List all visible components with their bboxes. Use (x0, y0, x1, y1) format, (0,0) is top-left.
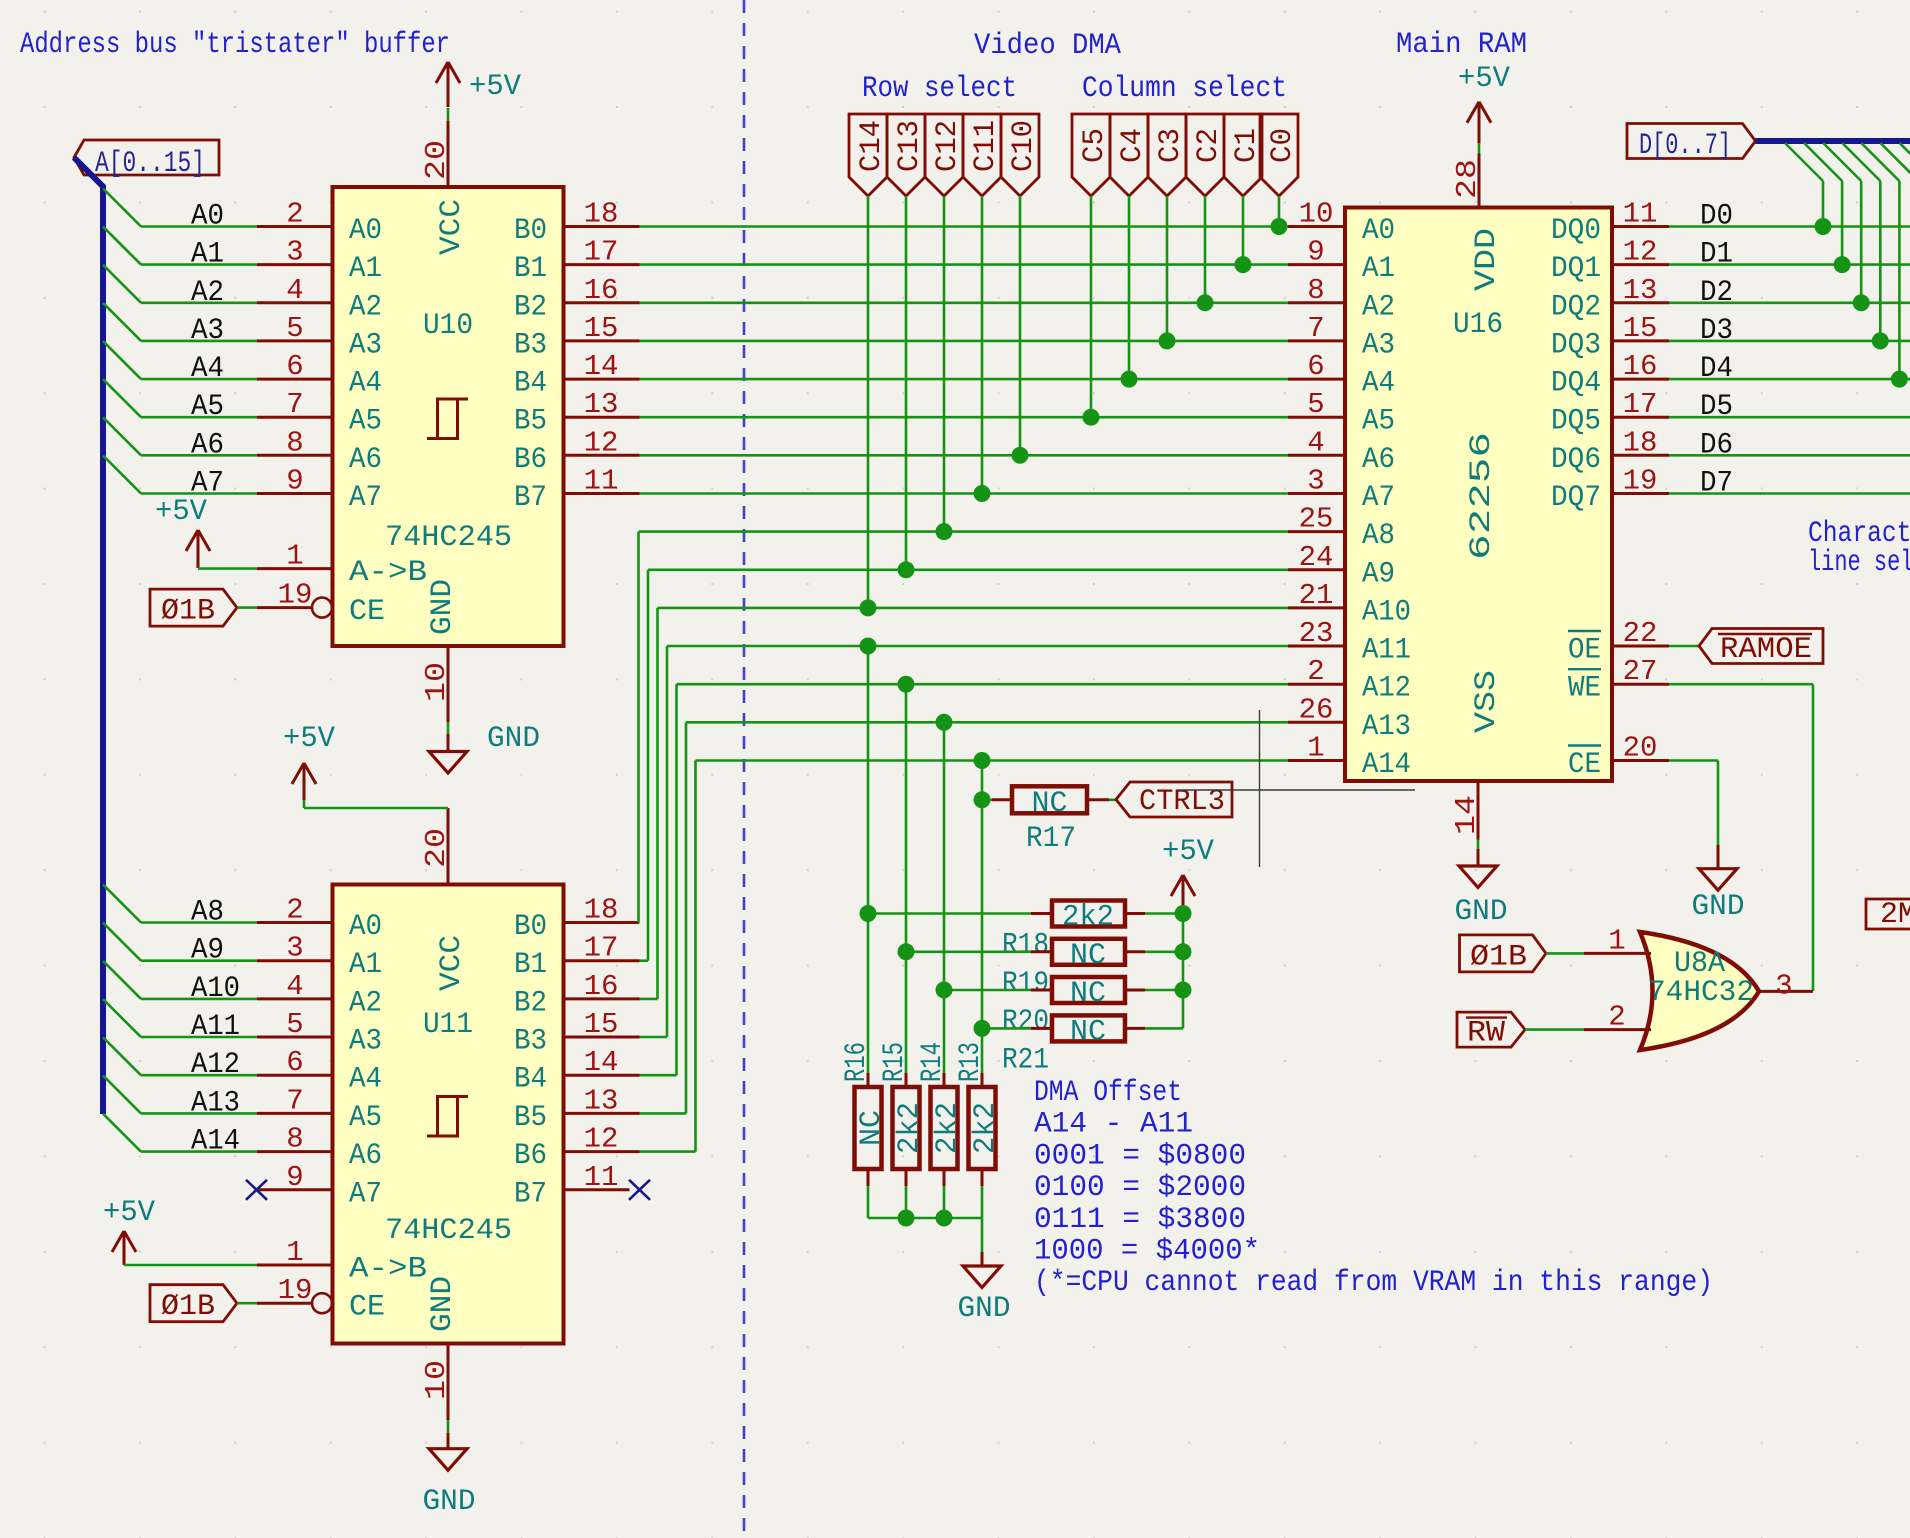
wire D7 (1669, 492, 1910, 495)
wire Ø1B to U10 CE (237, 606, 257, 609)
svg-text:1: 1 (286, 1236, 303, 1269)
svg-text:A9: A9 (1362, 557, 1395, 591)
U16 pin 21 A10 (1288, 606, 1345, 609)
U10 pin 4 A2 (257, 301, 333, 304)
U16 pin 16 DQ4 (1612, 378, 1669, 381)
svg-text:4: 4 (286, 274, 303, 307)
svg-text:9: 9 (286, 465, 303, 498)
wire C1 vertical (1242, 196, 1245, 265)
svg-text:A3: A3 (1362, 328, 1395, 362)
svg-text:NC: NC (1032, 787, 1068, 821)
svg-text:R20: R20 (1002, 1005, 1049, 1039)
junction +5V rail R19 (1175, 943, 1192, 960)
wire D3 (1669, 340, 1910, 343)
svg-text:12: 12 (584, 1123, 619, 1156)
svg-text:20: 20 (1623, 732, 1658, 765)
wire C2 vertical (1204, 196, 1207, 303)
power +5V at U10 pin 1 (197, 530, 200, 568)
U16 pin 15 DQ3 (1612, 339, 1669, 342)
svg-text:A2: A2 (1362, 290, 1395, 324)
cursor crosshair (1259, 710, 1261, 867)
U10 pin 7 A5 (257, 416, 333, 419)
svg-text:+5V: +5V (283, 722, 335, 756)
net flag C13 (887, 114, 925, 196)
svg-text:C4: C4 (1116, 128, 1150, 163)
U16 pin 3 A7 (1288, 492, 1345, 495)
junction at R19 left (898, 943, 915, 960)
U11 pin 1 A->B (257, 1264, 333, 1267)
svg-text:18: 18 (584, 198, 619, 231)
svg-text:A1: A1 (349, 948, 382, 982)
U16 pin 10 A0 (1288, 225, 1345, 228)
svg-text:Video DMA: Video DMA (974, 29, 1121, 63)
bus A[0..15] vertical (74, 158, 103, 1115)
svg-text:DQ0: DQ0 (1551, 214, 1601, 248)
junction tie R14 (936, 1210, 953, 1227)
power +5V at U10 VCC (447, 108, 450, 121)
bus D[0..7] horizontal (1756, 138, 1910, 144)
U16 pin 4 A6 (1288, 454, 1345, 457)
svg-text:74HC245: 74HC245 (385, 1214, 512, 1248)
bus label D[0..7] (1627, 124, 1756, 159)
label 2M box (clipped) (1866, 899, 1910, 929)
U11 pin 3 A9 (257, 959, 333, 962)
svg-text:NC: NC (1070, 977, 1106, 1011)
svg-text:74HC245: 74HC245 (385, 521, 512, 555)
junction C12/A8 (936, 523, 953, 540)
svg-text:A4: A4 (349, 1063, 382, 1097)
svg-text:10: 10 (420, 662, 453, 702)
svg-text:B5: B5 (514, 1101, 547, 1135)
wire A13 to U11 (141, 1112, 257, 1115)
svg-text:15: 15 (1623, 312, 1658, 345)
resistor R18 2k2 (868, 912, 1031, 915)
wire A4 to U10 (141, 378, 257, 381)
svg-text:GND: GND (1455, 895, 1508, 929)
svg-text:22: 22 (1623, 617, 1658, 650)
U11 pin 6 A12 (257, 1074, 333, 1077)
U11 pin 12 B6 (564, 1150, 640, 1153)
svg-text:20: 20 (420, 828, 453, 868)
svg-text:A2: A2 (349, 986, 382, 1020)
svg-text:+5V: +5V (103, 1196, 155, 1230)
U16 pin 24 A9 (1288, 568, 1345, 571)
junction C4/A4 (1121, 371, 1138, 388)
svg-text:B0: B0 (514, 214, 547, 248)
svg-text:B2: B2 (514, 290, 547, 324)
wire D1 (1669, 263, 1910, 266)
junction C3/A3 (1159, 332, 1176, 349)
svg-text:2M: 2M (1880, 898, 1910, 932)
svg-text:A3: A3 (349, 328, 382, 362)
svg-text:8: 8 (1307, 274, 1324, 307)
svg-text:R14: R14 (916, 1042, 950, 1082)
U10 schmitt mark (427, 399, 468, 439)
svg-text:A4: A4 (1362, 367, 1395, 401)
svg-text:2: 2 (1608, 1001, 1625, 1034)
svg-text:1: 1 (286, 540, 303, 573)
svg-text:3: 3 (1775, 969, 1792, 1002)
junction A11 row (860, 638, 877, 655)
svg-text:VCC: VCC (435, 935, 469, 991)
wire A2 to U10 (141, 301, 257, 304)
svg-text:A5: A5 (191, 390, 224, 424)
U10 pin 11 B7 (564, 492, 640, 495)
U16 pin 9 A1 (1288, 263, 1345, 266)
svg-text:2: 2 (286, 198, 303, 231)
U10 pin 12 B6 (564, 454, 640, 457)
IC U16 62256 body (1345, 208, 1612, 782)
wire D5 (1669, 416, 1910, 419)
U16 pin 11 DQ0 (1612, 225, 1669, 228)
net flag C12 (925, 114, 963, 196)
net flag C10 (1001, 114, 1039, 196)
svg-text:A3: A3 (191, 314, 224, 348)
net flag C2 (1186, 114, 1224, 196)
resistor R16 NC (867, 1073, 870, 1085)
U16 pin 20 CE (1612, 759, 1669, 762)
svg-text:A10: A10 (1362, 595, 1411, 629)
svg-text:8: 8 (286, 426, 303, 459)
svg-text:16: 16 (584, 274, 619, 307)
svg-text:23: 23 (1299, 617, 1334, 650)
svg-text:DQ4: DQ4 (1551, 367, 1601, 401)
svg-text:A11: A11 (1362, 634, 1411, 668)
svg-text:A8: A8 (191, 896, 224, 930)
svg-text:19: 19 (1623, 465, 1658, 498)
svg-text:WE: WE (1568, 672, 1601, 706)
svg-text:11: 11 (1623, 198, 1658, 231)
svg-text:0100 = $2000: 0100 = $2000 (1034, 1171, 1246, 1205)
wire +5V rail right of R18-R21 (1182, 914, 1185, 1029)
svg-text:A5: A5 (1362, 405, 1395, 439)
svg-text:Main RAM: Main RAM (1396, 28, 1527, 62)
U10 pin GND 10 (447, 646, 450, 722)
junction at R20 left (936, 982, 953, 999)
svg-text:+5V: +5V (469, 70, 521, 104)
wires U11 B0-B6 up to RAM A8-A14 rows (639, 532, 1289, 1152)
U10 pin 1 A->B (257, 567, 333, 570)
svg-text:B7: B7 (514, 481, 547, 515)
svg-text:B4: B4 (514, 1063, 547, 1097)
svg-text:VDD: VDD (1470, 228, 1504, 291)
svg-text:D3: D3 (1700, 314, 1733, 348)
junction A12 row (898, 676, 915, 693)
svg-text:13: 13 (584, 388, 619, 421)
U16 pin 7 A3 (1288, 339, 1345, 342)
svg-text:A6: A6 (191, 428, 224, 462)
svg-text:D2: D2 (1700, 276, 1733, 310)
svg-text:B6: B6 (514, 1139, 547, 1173)
svg-text:VSS: VSS (1470, 670, 1504, 733)
junction C5/A5 (1083, 409, 1100, 426)
svg-text:CE: CE (349, 595, 385, 629)
resistor R15 2k2 (905, 1073, 908, 1085)
wire A3 to U10 (141, 340, 257, 343)
U10 pin 19 CE with bubble (257, 606, 312, 609)
svg-text:C10: C10 (1007, 120, 1041, 172)
svg-text:2: 2 (286, 894, 303, 927)
svg-text:B1: B1 (514, 252, 547, 286)
U16 pin 1 A14 (1288, 759, 1345, 762)
junction tie R15 (898, 1210, 915, 1227)
svg-text:7: 7 (286, 388, 303, 421)
svg-text:DQ5: DQ5 (1551, 405, 1601, 439)
junction C14/A10 (860, 599, 877, 616)
resistor R21 NC (982, 1027, 1031, 1030)
svg-text:A11: A11 (191, 1010, 240, 1044)
U11 pin 8 A14 (257, 1150, 333, 1153)
svg-text:GND: GND (1692, 890, 1745, 924)
wire A1 to U10 (141, 263, 257, 266)
svg-text:12: 12 (584, 426, 619, 459)
svg-text:A13: A13 (1362, 710, 1411, 744)
svg-text:3: 3 (286, 236, 303, 269)
svg-text:7: 7 (286, 1084, 303, 1117)
U10 pin 9 A7 (257, 492, 333, 495)
junction C2/A2 (1197, 294, 1214, 311)
power +5V at U11 pin 1 (123, 1231, 126, 1265)
svg-text:B4: B4 (514, 367, 547, 401)
wire A8 to U11 (141, 921, 257, 924)
svg-text:A1: A1 (191, 238, 224, 272)
svg-text:2k2: 2k2 (969, 1102, 1003, 1154)
svg-text:CE: CE (349, 1291, 385, 1325)
U11 schmitt mark (427, 1097, 468, 1137)
junction +5V rail R18 (1175, 905, 1192, 922)
svg-text:C5: C5 (1078, 128, 1112, 163)
U10 pin VCC 20 (447, 121, 450, 187)
svg-text:A2: A2 (349, 290, 382, 324)
U16 pin 5 A5 (1288, 416, 1345, 419)
wire C5 vertical (1090, 196, 1093, 417)
svg-text:U11: U11 (423, 1008, 473, 1042)
svg-text:RW: RW (1467, 1017, 1505, 1051)
svg-text:28: 28 (1451, 159, 1484, 199)
wire D0 (1669, 225, 1910, 228)
wire: bus taps D0-D7 (1785, 143, 1910, 379)
svg-text:A14 - A11: A14 - A11 (1034, 1108, 1193, 1142)
U10 pin 2 A0 (257, 225, 333, 228)
svg-text:U10: U10 (423, 309, 473, 343)
wire A12 to U11 (141, 1074, 257, 1077)
U16 pin 18 DQ6 (1612, 454, 1669, 457)
svg-text:A6: A6 (1362, 443, 1395, 477)
svg-text:D5: D5 (1700, 390, 1733, 424)
ground at U10 pin 10 (447, 722, 450, 734)
U10 pin 3 A1 (257, 263, 333, 266)
svg-text:A14: A14 (191, 1125, 240, 1159)
svg-text:D7: D7 (1700, 467, 1733, 501)
svg-text:U16: U16 (1453, 308, 1503, 342)
svg-text:Column select: Column select (1082, 72, 1287, 106)
ground at U16 VSS (1477, 840, 1480, 850)
wire A9 to U11 (141, 959, 257, 962)
svg-text:DQ1: DQ1 (1551, 252, 1601, 286)
U16 pin 26 A13 (1288, 721, 1345, 724)
svg-text:19: 19 (278, 579, 313, 612)
U11 pin GND 10 (447, 1344, 450, 1421)
svg-text:B1: B1 (514, 948, 547, 982)
junction at R21 left (974, 1020, 991, 1037)
U16 pin 2 A12 (1288, 683, 1345, 686)
svg-text:+5V: +5V (155, 495, 207, 529)
wire C13 vertical (905, 196, 908, 570)
U10 pin 16 B2 (564, 301, 640, 304)
wire A10 to U11 (141, 998, 257, 1001)
svg-text:2k2: 2k2 (1062, 901, 1114, 935)
svg-text:B5: B5 (514, 405, 547, 439)
wire A11 to U11 (141, 1036, 257, 1039)
wire C10 vertical (1019, 196, 1022, 455)
svg-text:GND: GND (426, 579, 460, 635)
U16 pin VSS 14 (1477, 781, 1480, 840)
resistor R13 2k2 (981, 1073, 984, 1085)
svg-text:26: 26 (1299, 693, 1334, 726)
svg-text:A0: A0 (349, 214, 382, 248)
U16 pin 8 A2 (1288, 301, 1345, 304)
svg-text:13: 13 (584, 1084, 619, 1117)
OR gate U8A 74HC32 (1640, 932, 1759, 1050)
net flag C0 (1260, 114, 1298, 196)
wire C4 vertical (1128, 196, 1131, 379)
junction C1/A1 (1235, 256, 1252, 273)
U10 pin 15 B3 (564, 339, 640, 342)
wires A0-A7 rows from U10 B outputs to U16 (640, 227, 1289, 494)
svg-text:2k2: 2k2 (893, 1102, 927, 1154)
svg-text:1: 1 (1307, 732, 1324, 765)
U11 pin 14 B4 (564, 1074, 640, 1077)
U16 pin 25 A8 (1288, 530, 1345, 533)
svg-text:11: 11 (584, 1161, 619, 1194)
svg-text:D1: D1 (1700, 238, 1733, 272)
ground at U11 pin 10 (447, 1420, 450, 1433)
U16 pin 12 DQ1 (1612, 263, 1669, 266)
no-connect X at U11 pin 11 (629, 1180, 650, 1200)
svg-text:8: 8 (286, 1123, 303, 1156)
wire D2 (1669, 301, 1910, 304)
svg-text:Ø1B: Ø1B (1470, 940, 1527, 974)
svg-text:CE: CE (1568, 748, 1601, 782)
svg-text:VCC: VCC (435, 199, 469, 255)
svg-text:A5: A5 (349, 1101, 382, 1135)
bus label A[0..15] (74, 140, 219, 175)
U10 pin 17 B1 (564, 263, 640, 266)
junction D4 (1891, 371, 1908, 388)
U16 pin 27 WE (1612, 683, 1669, 686)
svg-text:9: 9 (286, 1161, 303, 1194)
junction C10/A6 (1012, 447, 1029, 464)
svg-text:7: 7 (1307, 312, 1324, 345)
wire C11 vertical (981, 196, 984, 494)
svg-text:D4: D4 (1700, 352, 1733, 386)
svg-text:25: 25 (1299, 503, 1334, 536)
wire A6 to U10 (141, 454, 257, 457)
svg-text:21: 21 (1299, 579, 1334, 612)
svg-text:0001 = $0800: 0001 = $0800 (1034, 1139, 1246, 1173)
svg-text:11: 11 (584, 465, 619, 498)
U16 pin 22 OE (1612, 645, 1669, 648)
U16 pin 6 A4 (1288, 378, 1345, 381)
wire to ground from tie (981, 1218, 984, 1252)
svg-text:A7: A7 (1362, 481, 1395, 515)
wire RW to U8A pin 2 (1525, 1028, 1584, 1031)
svg-text:NC: NC (1070, 939, 1106, 973)
svg-text:C2: C2 (1192, 128, 1226, 163)
U11 pin 4 A10 (257, 997, 333, 1000)
svg-text:A8: A8 (1362, 519, 1395, 553)
svg-text:OE: OE (1568, 634, 1601, 668)
svg-text:A9: A9 (191, 934, 224, 968)
U8A pin 2 (1584, 1028, 1651, 1031)
svg-text:NC: NC (855, 1110, 889, 1146)
U11 pin 15 B3 (564, 1036, 640, 1039)
ground under R13-R16 (981, 1252, 984, 1266)
svg-text:4: 4 (286, 970, 303, 1003)
svg-text:A0: A0 (191, 200, 224, 234)
junction at R18 left (860, 905, 877, 922)
U16 pin 13 DQ2 (1612, 301, 1669, 304)
junction D2 (1853, 294, 1870, 311)
IC U11 74HC245 body (333, 885, 564, 1344)
svg-text:17: 17 (1623, 388, 1658, 421)
svg-text:62256: 62256 (1465, 432, 1499, 560)
svg-text:A5: A5 (349, 405, 382, 439)
net flag C14 (849, 114, 887, 196)
svg-text:C13: C13 (893, 120, 927, 172)
U16 pin VDD 28 (1478, 154, 1481, 208)
svg-text:3: 3 (1307, 465, 1324, 498)
svg-text:Address bus "tristater" buffer: Address bus "tristater" buffer (20, 28, 450, 62)
svg-text:15: 15 (584, 1008, 619, 1041)
svg-text:A14: A14 (1362, 748, 1411, 782)
resistor R19 NC (906, 950, 1031, 953)
svg-text:R13: R13 (954, 1042, 988, 1082)
svg-text:NC: NC (1070, 1015, 1106, 1049)
svg-text:RAMOE: RAMOE (1720, 633, 1812, 667)
svg-text:B0: B0 (514, 910, 547, 944)
wire Ø1B to U8A pin 1 (1546, 952, 1584, 955)
svg-text:R19: R19 (1002, 967, 1049, 1001)
svg-text:B3: B3 (514, 1025, 547, 1059)
wire A13 down to resistors (943, 722, 946, 1073)
svg-text:(*=CPU cannot read from VRAM i: (*=CPU cannot read from VRAM in this ran… (1034, 1266, 1713, 1300)
svg-text:A7: A7 (349, 481, 382, 515)
svg-text:9: 9 (1307, 236, 1324, 269)
U11 pin 11 B7 (no connect) (564, 1188, 630, 1191)
wire C0 vertical (1278, 196, 1281, 227)
svg-text:B2: B2 (514, 986, 547, 1020)
svg-text:14: 14 (584, 1046, 619, 1079)
global label RW (1457, 1012, 1525, 1047)
wire D6 (1669, 454, 1910, 457)
svg-text:A6: A6 (349, 443, 382, 477)
resistor R20 NC (944, 989, 1031, 992)
wire C14 vertical (867, 196, 870, 608)
svg-text:R15: R15 (878, 1042, 912, 1082)
svg-text:Ø1B: Ø1B (161, 1290, 215, 1324)
wire A7 to U10 (141, 492, 257, 495)
svg-text:DQ2: DQ2 (1551, 290, 1601, 324)
net flag C1 (1224, 114, 1262, 196)
junction A13 row (936, 714, 953, 731)
power +5V at U16 VDD (1478, 144, 1481, 154)
svg-text:14: 14 (584, 350, 619, 383)
resistor R14 2k2 (943, 1073, 946, 1085)
svg-text:B6: B6 (514, 443, 547, 477)
svg-text:A12: A12 (1362, 672, 1411, 706)
svg-text:16: 16 (1623, 350, 1658, 383)
